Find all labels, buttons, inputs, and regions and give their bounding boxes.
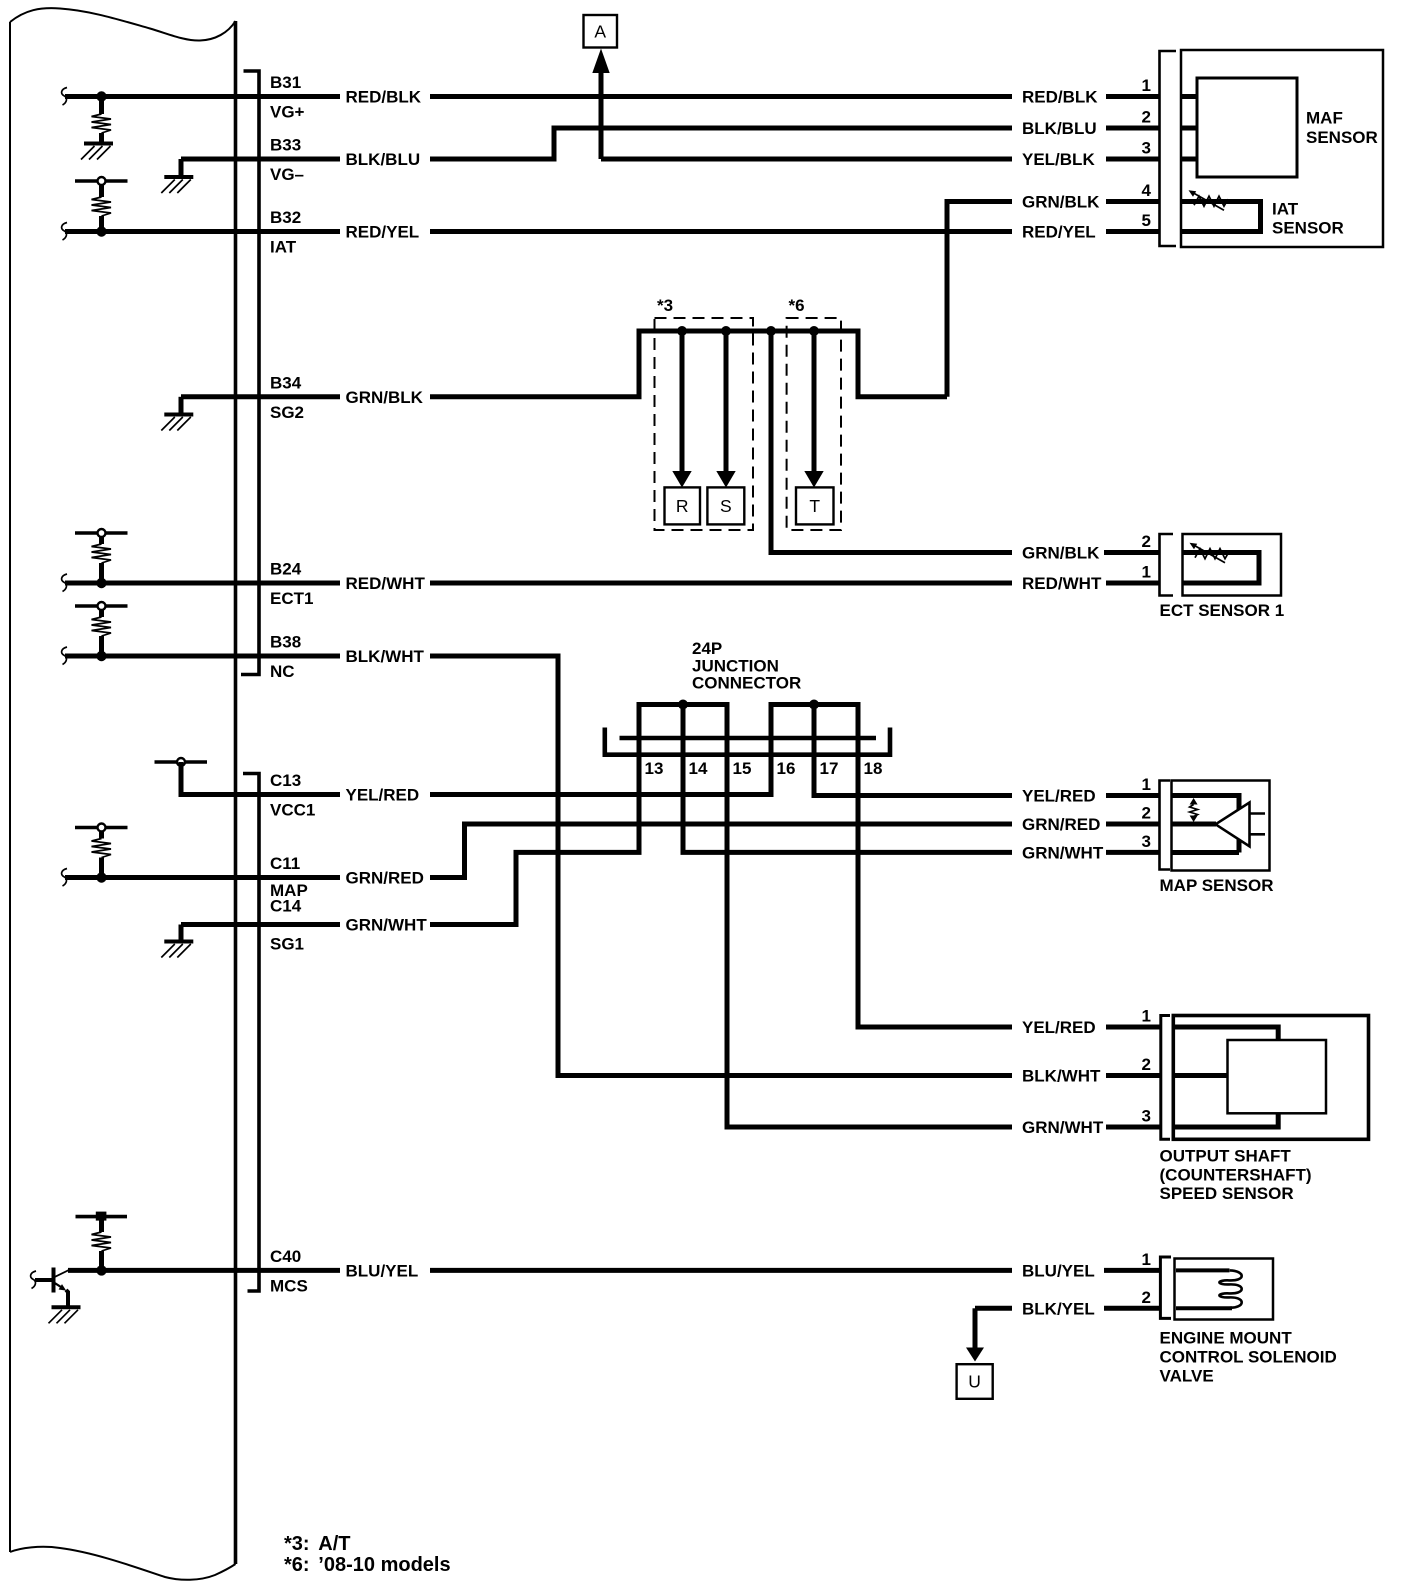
svg-text:C40: C40 bbox=[270, 1247, 301, 1266]
MAF sensor element box bbox=[1197, 78, 1297, 177]
MAP sensor op-amp triangle bbox=[1216, 803, 1250, 847]
svg-text:RED/WHT: RED/WHT bbox=[1022, 574, 1102, 593]
svg-text:SENSOR: SENSOR bbox=[1306, 128, 1378, 147]
wire B38 BLK/WHT row to speed sensor pin 2 bbox=[65, 656, 1160, 1076]
node B24 junction dot bbox=[96, 578, 106, 588]
node bus dot S bbox=[721, 326, 731, 336]
MAP sensor output stubs bbox=[1250, 814, 1265, 835]
svg-text:4: 4 bbox=[1142, 181, 1152, 200]
ground SG1 bbox=[161, 942, 193, 958]
node B38 junction dot bbox=[96, 651, 106, 661]
svg-text:SPEED SENSOR: SPEED SENSOR bbox=[1160, 1184, 1294, 1203]
pullup bar with circle B38 bbox=[75, 602, 128, 610]
svg-text:16: 16 bbox=[777, 759, 796, 778]
svg-text:MAP SENSOR: MAP SENSOR bbox=[1160, 876, 1274, 895]
wire ground stub SG2 bbox=[179, 397, 184, 413]
svg-text:B32: B32 bbox=[270, 208, 301, 227]
IAT sensor element bbox=[1182, 202, 1261, 232]
off-page connector R box bbox=[665, 487, 701, 524]
svg-text:YEL/BLK: YEL/BLK bbox=[1022, 150, 1095, 169]
svg-text:3: 3 bbox=[1142, 139, 1151, 158]
svg-text:RED/YEL: RED/YEL bbox=[1022, 223, 1096, 242]
svg-text:1: 1 bbox=[1142, 563, 1151, 582]
svg-text:*3: *3 bbox=[657, 296, 673, 315]
svg-text:IAT: IAT bbox=[270, 238, 297, 257]
wire MAF pin 2 stub bbox=[1181, 126, 1197, 131]
node C40 junction dot bbox=[96, 1265, 106, 1275]
wire break Q1 base bbox=[31, 1271, 36, 1289]
wire B33 BLK/BLU row bbox=[181, 128, 1160, 159]
wire resistor stub B32 bbox=[99, 185, 104, 197]
wire break C11 bbox=[62, 869, 67, 887]
svg-text:B33: B33 bbox=[270, 136, 301, 155]
svg-text:S: S bbox=[720, 496, 732, 516]
resistor R-C11 bbox=[92, 839, 112, 858]
solenoid coil top lead bbox=[1176, 1268, 1230, 1272]
wire break B24 bbox=[62, 574, 67, 592]
svg-text:GRN/BLK: GRN/BLK bbox=[346, 388, 424, 407]
wire dot stub B24 bbox=[99, 563, 104, 583]
wire junction bus 16-17-18 with YEL/RED to speed sensor pin1 bbox=[430, 705, 1160, 1028]
wire ground stub VG- bbox=[179, 159, 184, 176]
MAP sensor piezoresistor bbox=[1190, 798, 1198, 805]
svg-text:YEL/RED: YEL/RED bbox=[1022, 1018, 1096, 1037]
svg-text:B38: B38 bbox=[270, 633, 301, 652]
svg-text:VALVE: VALVE bbox=[1160, 1367, 1214, 1386]
resistor R-B24 bbox=[92, 544, 112, 563]
wire C14 GRN/WHT row bbox=[181, 922, 340, 927]
wire resistor stub C40 bbox=[99, 1216, 104, 1232]
MAP sensor box bbox=[1172, 781, 1270, 871]
ECM connector bracket B group bbox=[241, 71, 259, 675]
wire dot stub B38 bbox=[99, 636, 104, 656]
solenoid coil L1 bbox=[1219, 1270, 1241, 1307]
svg-text:MAF: MAF bbox=[1306, 109, 1343, 128]
svg-text:18: 18 bbox=[864, 759, 883, 778]
wire MAF pin 3 stub bbox=[1181, 157, 1197, 162]
svg-text:VCC1: VCC1 bbox=[270, 801, 315, 820]
node bus dot ECT branch bbox=[766, 326, 776, 336]
pullup bar with circle B32 bbox=[75, 177, 128, 185]
dashed option box *6 bbox=[787, 318, 841, 530]
transistor Q1 collector bbox=[55, 1270, 69, 1277]
wire pin 14 drop to MAP pin 3 bbox=[683, 705, 1160, 853]
svg-text:BLK/WHT: BLK/WHT bbox=[1022, 1067, 1101, 1086]
svg-text:2: 2 bbox=[1142, 1288, 1151, 1307]
svg-text:YEL/RED: YEL/RED bbox=[346, 786, 420, 805]
svg-text:3: 3 bbox=[1142, 832, 1151, 851]
wire B32 RED/YEL row bbox=[65, 229, 1160, 234]
resistor R-B38 bbox=[92, 617, 112, 636]
node B32 junction dot bbox=[96, 226, 106, 236]
svg-text:1: 1 bbox=[1142, 775, 1151, 794]
wire ground stub B31 bbox=[99, 133, 104, 144]
svg-text:A/T: A/T bbox=[318, 1533, 350, 1555]
arrowhead to U bbox=[966, 1348, 984, 1362]
wire MAP pin 3 internal bbox=[1172, 850, 1240, 855]
wire break B32 bbox=[62, 223, 67, 241]
wire YEL/BLK row from connector A bbox=[601, 157, 1160, 162]
power supply tick bbox=[96, 1212, 107, 1221]
svg-text:14: 14 bbox=[689, 759, 708, 778]
svg-text:B34: B34 bbox=[270, 373, 302, 392]
wire resistor stub C11 bbox=[99, 832, 104, 839]
arrowhead T bbox=[804, 471, 823, 488]
ECM box left edge bbox=[9, 22, 11, 1552]
wire B24 RED/WHT row bbox=[65, 581, 1160, 586]
svg-text:5: 5 bbox=[1142, 211, 1151, 230]
transistor Q1 base lead bbox=[35, 1278, 52, 1282]
svg-text:*6:: *6: bbox=[284, 1554, 310, 1576]
wire ground stub SG1 bbox=[179, 925, 184, 941]
power supply bar C40 bbox=[76, 1215, 128, 1219]
ECM box torn top edge bbox=[10, 8, 236, 40]
svg-text:*6: *6 bbox=[789, 296, 805, 315]
output shaft speed sensor element box bbox=[1228, 1040, 1327, 1113]
svg-text:U: U bbox=[968, 1372, 981, 1392]
svg-text:VG–: VG– bbox=[270, 165, 304, 184]
svg-text:BLK/BLU: BLK/BLU bbox=[346, 150, 421, 169]
svg-text:GRN/BLK: GRN/BLK bbox=[1022, 544, 1100, 563]
svg-text:SG1: SG1 bbox=[270, 935, 304, 954]
svg-text:RED/YEL: RED/YEL bbox=[346, 223, 420, 242]
wire connector A riser bbox=[599, 70, 604, 159]
svg-text:OUTPUT SHAFT: OUTPUT SHAFT bbox=[1160, 1147, 1292, 1166]
ground B31 bbox=[81, 144, 113, 160]
ECM box torn bottom edge bbox=[10, 1547, 236, 1580]
svg-text:C13: C13 bbox=[270, 771, 301, 790]
svg-text:17: 17 bbox=[820, 759, 839, 778]
ground Q1 emitter bbox=[49, 1307, 81, 1323]
dashed option box *3 bbox=[655, 318, 754, 530]
svg-text:RED/BLK: RED/BLK bbox=[346, 88, 422, 107]
svg-text:(COUNTERSHAFT): (COUNTERSHAFT) bbox=[1160, 1165, 1312, 1184]
svg-text:1: 1 bbox=[1142, 76, 1151, 95]
wire pin 17 drop to MAP pin 1 bbox=[814, 705, 1160, 796]
off-page connector S box bbox=[707, 487, 744, 524]
wire junction bus 13-14-15 with GRN/WHT run from C14 and to speed sensor pin3 bbox=[430, 705, 1160, 1128]
svg-text:RED/WHT: RED/WHT bbox=[346, 574, 426, 593]
svg-text:1: 1 bbox=[1142, 1007, 1151, 1026]
node C11 junction dot bbox=[96, 872, 106, 882]
wire MAP pin 2 internal bbox=[1172, 822, 1217, 827]
svg-text:CONTROL SOLENOID: CONTROL SOLENOID bbox=[1160, 1348, 1337, 1367]
ECT sensor 1 connector bracket bbox=[1160, 534, 1174, 596]
resistor R-B32 bbox=[92, 197, 112, 216]
resistor R-C40 bbox=[92, 1232, 112, 1251]
MAP sensor connector bracket bbox=[1160, 781, 1171, 870]
svg-text:YEL/RED: YEL/RED bbox=[1022, 787, 1096, 806]
svg-text:MCS: MCS bbox=[270, 1276, 308, 1295]
svg-text:B31: B31 bbox=[270, 73, 301, 92]
resistor R-B31 bbox=[92, 114, 112, 133]
junction connector body bracket bbox=[605, 728, 890, 755]
svg-text:A: A bbox=[594, 22, 606, 42]
wire GRN/BLK branch to ECT sensor bbox=[771, 331, 1160, 553]
wire resistor stub B24 bbox=[99, 537, 104, 544]
wire resistor stub B31 bbox=[99, 97, 104, 115]
engine mount control solenoid valve connector bracket bbox=[1160, 1257, 1171, 1318]
ECT sensor 1 box bbox=[1183, 534, 1282, 596]
IAT sensor thermistor symbol bbox=[1189, 190, 1229, 210]
wire speed sensor pin 3 internal bbox=[1175, 1113, 1278, 1127]
svg-text:GRN/RED: GRN/RED bbox=[1022, 815, 1100, 834]
svg-text:GRN/WHT: GRN/WHT bbox=[1022, 843, 1104, 862]
ground SG2 bbox=[161, 415, 193, 431]
svg-text:GRN/BLK: GRN/BLK bbox=[1022, 193, 1100, 212]
wire arrow to S bbox=[724, 331, 729, 471]
wire C11 GRN/RED row to MAP pin 2 bbox=[65, 824, 1160, 878]
wire C40 BLU/YEL row bbox=[68, 1268, 1160, 1273]
wire speed sensor pin 1 internal bbox=[1175, 1027, 1278, 1040]
wire resistor stub B38 bbox=[99, 610, 104, 617]
svg-text:*3:: *3: bbox=[284, 1533, 310, 1555]
wire B34 GRN/BLK row with junction bus bbox=[181, 331, 947, 397]
svg-text:C14: C14 bbox=[270, 897, 302, 916]
node B31 junction dot bbox=[96, 91, 106, 101]
wire U riser bbox=[973, 1308, 978, 1350]
svg-text:3: 3 bbox=[1142, 1107, 1151, 1126]
wire emitter leg bbox=[66, 1290, 68, 1306]
node bus dot R bbox=[677, 326, 687, 336]
wire arrow to R bbox=[680, 331, 685, 471]
svg-text:GRN/RED: GRN/RED bbox=[346, 869, 424, 888]
svg-text:’08-10 models: ’08-10 models bbox=[318, 1554, 450, 1576]
pullup bar with circle B24 bbox=[75, 529, 128, 537]
MAF sensor connector bracket bbox=[1160, 51, 1177, 246]
off-page connector U box bbox=[957, 1364, 993, 1399]
arrowhead to A bbox=[592, 49, 609, 74]
svg-text:2: 2 bbox=[1142, 108, 1151, 127]
svg-text:CONNECTOR: CONNECTOR bbox=[692, 674, 801, 693]
arrowhead S bbox=[716, 471, 735, 488]
svg-text:BLU/YEL: BLU/YEL bbox=[1022, 1261, 1095, 1280]
svg-text:GRN/WHT: GRN/WHT bbox=[1022, 1118, 1104, 1137]
svg-text:2: 2 bbox=[1142, 804, 1151, 823]
arrowhead R bbox=[672, 471, 691, 488]
MAF sensor outer box bbox=[1181, 50, 1383, 247]
svg-text:R: R bbox=[676, 496, 689, 516]
wire dot stub C40 bbox=[99, 1251, 104, 1270]
wire break B31 bbox=[62, 88, 67, 106]
transistor Q1 emitter bbox=[55, 1283, 63, 1288]
node junction dot pin 17 bbox=[809, 700, 819, 710]
svg-text:C11: C11 bbox=[270, 854, 300, 873]
svg-text:GRN/WHT: GRN/WHT bbox=[346, 916, 428, 935]
svg-text:B24: B24 bbox=[270, 560, 302, 579]
svg-text:1: 1 bbox=[1142, 1250, 1151, 1269]
wire stub C13 bbox=[181, 762, 340, 795]
wire dot stub B32 bbox=[99, 216, 104, 232]
svg-text:2: 2 bbox=[1142, 532, 1151, 551]
svg-text:ENGINE MOUNT: ENGINE MOUNT bbox=[1160, 1329, 1293, 1348]
svg-text:RED/BLK: RED/BLK bbox=[1022, 88, 1098, 107]
pullup bar with circle C11 bbox=[75, 824, 128, 832]
ECM connector bracket C group bbox=[243, 774, 259, 1292]
wire MAP pin 1 internal bbox=[1172, 796, 1240, 853]
svg-text:BLK/WHT: BLK/WHT bbox=[346, 647, 425, 666]
svg-text:SG2: SG2 bbox=[270, 403, 304, 422]
wire break B38 bbox=[62, 647, 67, 665]
ECM box right edge bbox=[234, 21, 238, 1564]
wire BLK/YEL row from solenoid pin 2 bbox=[975, 1306, 1160, 1311]
wire B31 RED/BLK row bbox=[65, 94, 1160, 99]
transistor Q1 base bar bbox=[52, 1268, 56, 1293]
wire arrow to T bbox=[812, 331, 817, 471]
svg-text:2: 2 bbox=[1142, 1055, 1151, 1074]
svg-text:BLK/BLU: BLK/BLU bbox=[1022, 119, 1097, 138]
wire dot stub C11 bbox=[99, 858, 104, 878]
junction connector bus bar bbox=[620, 736, 877, 741]
pullup bar with circle C13 bbox=[155, 758, 208, 766]
svg-text:IAT: IAT bbox=[1272, 200, 1299, 219]
node junction dot pin 14 bbox=[678, 700, 688, 710]
solenoid coil bottom lead bbox=[1176, 1306, 1232, 1310]
svg-text:13: 13 bbox=[645, 759, 664, 778]
wire MAF pin 1 stub bbox=[1181, 94, 1197, 99]
ground VG- bbox=[161, 177, 193, 193]
node bus dot T bbox=[809, 326, 819, 336]
svg-text:ECT1: ECT1 bbox=[270, 589, 313, 608]
off-page connector T box bbox=[796, 487, 834, 524]
svg-text:VG+: VG+ bbox=[270, 103, 305, 122]
svg-text:ECT SENSOR 1: ECT SENSOR 1 bbox=[1160, 601, 1285, 620]
svg-text:T: T bbox=[809, 496, 820, 516]
off-page connector A box bbox=[584, 15, 618, 48]
wire speed sensor pin 2 internal bbox=[1175, 1073, 1228, 1078]
svg-text:NC: NC bbox=[270, 662, 295, 681]
ECT sensor 1 thermistor symbol bbox=[1190, 543, 1230, 563]
transistor Q1 emitter arrowhead bbox=[59, 1284, 67, 1291]
svg-text:BLK/YEL: BLK/YEL bbox=[1022, 1299, 1095, 1318]
svg-text:24P: 24P bbox=[692, 639, 722, 658]
output shaft speed sensor connector bracket bbox=[1161, 1016, 1170, 1140]
svg-text:BLU/YEL: BLU/YEL bbox=[346, 1261, 419, 1280]
svg-text:15: 15 bbox=[733, 759, 752, 778]
output shaft speed sensor outer box bbox=[1173, 1016, 1368, 1140]
svg-text:SENSOR: SENSOR bbox=[1272, 219, 1344, 238]
ECT sensor 1 thermistor element bbox=[1183, 553, 1259, 584]
engine mount control solenoid valve box bbox=[1175, 1259, 1274, 1320]
wire GRN/BLK to MAF pin 4 bbox=[947, 202, 1160, 397]
